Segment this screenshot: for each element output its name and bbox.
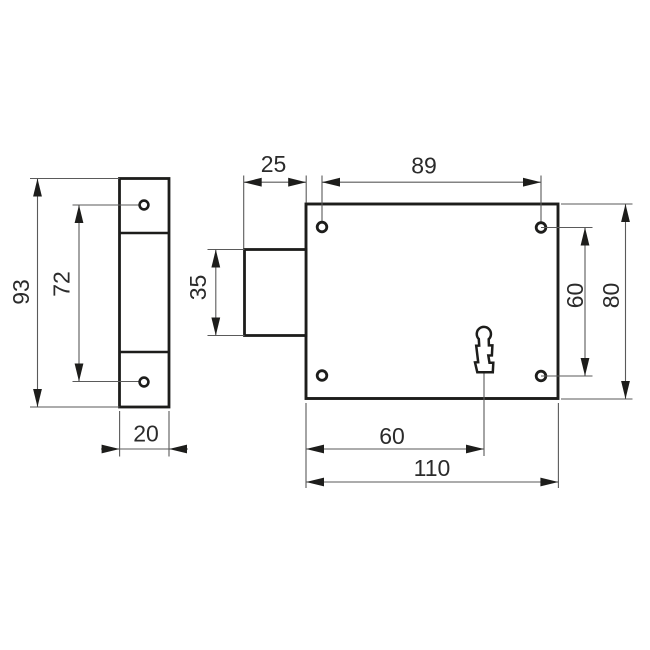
dimension line 89 (322, 181, 541, 183)
svg-text:89: 89 (411, 153, 437, 179)
dimension line 80 (625, 204, 627, 399)
extension line: 60 right bottom from hole center (541, 375, 593, 377)
svg-text:80: 80 (598, 283, 624, 309)
svg-text:60: 60 (562, 283, 588, 309)
arrow 60 right up (581, 228, 590, 246)
extension line: 35 top (208, 249, 245, 251)
extension line: left view 72 top (73, 204, 145, 206)
arrow 20 left (outside pointing right) (102, 445, 120, 454)
arrow 60 bottom right (466, 445, 484, 454)
dimension line 60 right (584, 228, 586, 377)
svg-text:35: 35 (185, 275, 211, 301)
label 110 (414, 455, 451, 481)
svg-text:25: 25 (261, 151, 287, 177)
arrow 72 down (75, 364, 84, 382)
dimension line 110 (306, 481, 558, 483)
keyhole (475, 327, 493, 372)
arrow 35 down (211, 318, 220, 336)
front view lower-left screw hole (317, 371, 327, 381)
label 72 (48, 271, 74, 297)
left view lower screw hole (140, 378, 149, 387)
front view plate outline (306, 204, 558, 399)
label 60 bottom (379, 423, 405, 449)
extension line: keyhole centerline down (483, 374, 485, 457)
arrow 110 right (540, 478, 558, 487)
dimension line 25 (244, 181, 307, 183)
dimension line 72 (78, 205, 80, 382)
arrow 89 left (322, 178, 340, 187)
label 93 (8, 279, 34, 305)
svg-text:60: 60 (379, 423, 405, 449)
extension line: 80 top (561, 203, 633, 205)
extension line: 60 right top from hole center (541, 227, 593, 229)
front view cylinder stub outline (245, 250, 307, 336)
label 20 (133, 420, 159, 446)
dimension line 93 (37, 179, 39, 408)
extension line: 80 bottom (561, 398, 633, 400)
svg-text:93: 93 (8, 279, 34, 305)
extension line: left view 93 top (30, 178, 120, 180)
extension line: left view 20 left (119, 411, 121, 457)
front view upper-left screw hole (317, 222, 327, 232)
arrow 35 up (211, 250, 220, 268)
svg-text:72: 72 (48, 271, 74, 297)
extension line: 89 left down to upper-left hole (321, 176, 323, 228)
extension line: 110 right at box edge (557, 403, 559, 488)
left view lower divider line (120, 351, 170, 354)
arrow 110 left (306, 478, 324, 487)
svg-text:110: 110 (414, 455, 451, 481)
front view upper-right screw hole (536, 223, 546, 233)
dimension line 35 (215, 250, 217, 336)
label 89 (411, 153, 437, 179)
arrow 93 up (33, 179, 42, 197)
extension line: 89 right down to upper-right hole (540, 176, 542, 228)
label 80 (598, 283, 624, 309)
extension line: left view 20 right (168, 411, 170, 457)
arrow 93 down (33, 389, 42, 407)
extension line: left view 93 bottom (30, 406, 120, 408)
front view lower-right screw hole (536, 371, 546, 381)
extension line: bottom dims left at box edge (305, 403, 307, 488)
arrow 20 right (outside pointing left) (169, 445, 187, 454)
left view upper divider line (120, 232, 170, 235)
extension line: 35 bottom (208, 335, 245, 337)
arrow 25 right (288, 178, 306, 187)
label 60 right (562, 283, 588, 309)
arrow 89 right (523, 178, 541, 187)
arrow 60 bottom left (306, 445, 324, 454)
arrow 60 right down (581, 358, 590, 376)
dimension line 60 bottom (306, 448, 484, 450)
label 35 (185, 275, 211, 301)
svg-text:20: 20 (133, 420, 159, 446)
arrow 25 left (244, 178, 262, 187)
arrow 80 up (621, 204, 630, 222)
dimension line 20 (101, 448, 188, 450)
arrow 80 down (621, 381, 630, 399)
left view plate outline (120, 179, 170, 408)
extension line: 25/89 shared at box left edge (305, 176, 307, 203)
extension line: left view 72 bottom (73, 381, 145, 383)
left view upper screw hole (140, 201, 149, 210)
label 25 (261, 151, 287, 177)
extension line: 25 left over stub corner (243, 176, 245, 249)
arrow 72 up (75, 205, 84, 223)
